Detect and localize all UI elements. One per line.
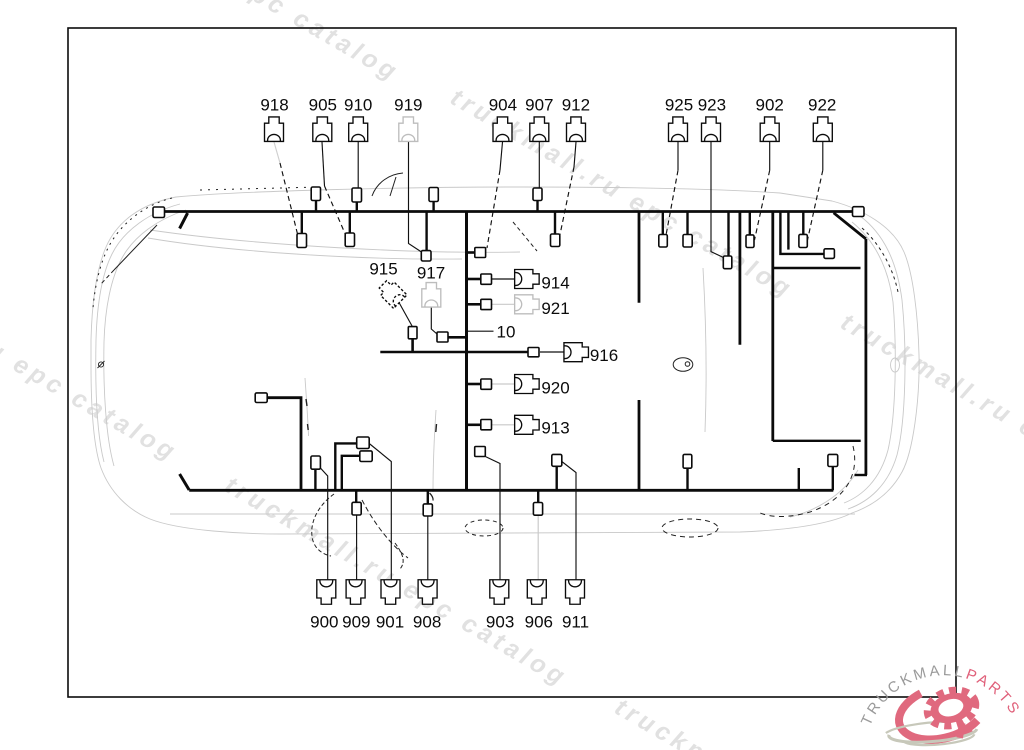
front left dotted edge (93, 198, 172, 308)
svg-text:919: 919 (394, 95, 422, 114)
svg-text:917: 917 (417, 264, 445, 283)
front door seam (305, 378, 309, 436)
stub 687 lower (686, 468, 688, 490)
wire rect-920 gray (492, 383, 515, 385)
svg-text:914: 914 (541, 274, 569, 293)
b-pillar line (433, 410, 436, 492)
left branch wire (267, 398, 301, 491)
stub 900 rect (314, 469, 316, 490)
rect gamma1 (357, 437, 370, 449)
lead 909 down (356, 515, 358, 579)
rect comb 824 (824, 249, 834, 259)
mid horizontal wire (380, 351, 528, 354)
rect 687 lower (683, 454, 692, 468)
logo gray swoosh shadow (885, 719, 978, 749)
A pillar diagonal (114, 225, 157, 270)
bottom-left arc crossing (362, 500, 408, 558)
bottom-left wheel curl (312, 494, 334, 556)
lead 904 (500, 142, 503, 170)
drop B4 (554, 212, 556, 235)
rect 903 feed (475, 447, 486, 457)
right comb drop 663 (662, 212, 664, 235)
rect comb 803 (799, 234, 807, 247)
symbol 919 gray (399, 117, 418, 142)
comb drop 803 (802, 212, 804, 235)
rect R4 920 (481, 379, 492, 389)
symbol 917 gray (422, 283, 441, 308)
symbol 902 (760, 117, 779, 142)
svg-text:truckmall.ru epc catalog: truckmall.ru epc catalog (836, 308, 1024, 529)
symbol 908 (418, 580, 437, 605)
right diagonal from top wire (834, 213, 866, 239)
center trunk (465, 212, 468, 491)
stub A2 (356, 202, 358, 212)
svg-text:10: 10 (497, 323, 516, 342)
svg-text:920: 920 (541, 379, 569, 398)
door seam ticks (306, 399, 437, 432)
svg-text:908: 908 (413, 612, 441, 631)
gamma1 wire (335, 443, 356, 490)
rect A1 (311, 187, 320, 201)
logo gear (923, 685, 984, 746)
symbol 916 side (564, 343, 589, 362)
spare wheel dashed ellipse 1 (465, 520, 503, 536)
lead 919 (409, 142, 422, 252)
symbol 906 (527, 580, 546, 605)
top edge dotted (200, 187, 320, 190)
rect 906 (533, 503, 542, 516)
drop B1 (301, 212, 303, 234)
rear right lower dashed arc (758, 446, 855, 517)
logo arc text (870, 675, 1014, 726)
car body outer (91, 187, 919, 534)
gamma2 wire (342, 456, 360, 491)
rect A2 (352, 188, 362, 202)
svg-text:913: 913 (541, 419, 569, 438)
rect B1 (297, 234, 307, 248)
wire rect-916 (540, 351, 564, 353)
svg-text:921: 921 (541, 299, 569, 318)
small tick below line (430, 493, 434, 501)
drop B2 (349, 212, 351, 234)
rect 900 (311, 456, 321, 469)
left end rect (153, 207, 165, 218)
svg-text:900: 900 (310, 612, 338, 631)
stub R4 920 (467, 383, 481, 386)
symbol 909 (346, 580, 365, 605)
drop 908 (427, 490, 429, 504)
symbol 914 side (515, 270, 540, 289)
svg-text:901: 901 (376, 612, 404, 631)
wire rect-921 gray (492, 303, 515, 305)
svg-text:922: 922 (808, 95, 836, 114)
rect B3 (421, 251, 431, 261)
rear inner curve 1 (848, 216, 905, 509)
right trunk lower (638, 400, 641, 490)
rear pillar line (703, 268, 706, 432)
rear inner curve 2 (844, 222, 895, 503)
stub R1 914 (467, 278, 481, 281)
symbol 904 (493, 117, 512, 142)
rect comb 687 (683, 235, 692, 248)
svg-text:905: 905 (309, 95, 337, 114)
bare stub 799 (798, 468, 800, 490)
rect 911 (552, 454, 562, 466)
rect R2 921 (481, 299, 492, 309)
A pillar diagonal dashes (100, 270, 114, 285)
rect comb 750 (746, 235, 754, 248)
stub A4 (536, 201, 538, 212)
lead 905 (322, 142, 325, 186)
symbol 910 (349, 117, 368, 142)
rect 917 lead (437, 332, 448, 342)
svg-text:918: 918 (260, 95, 288, 114)
symbol 922 (813, 117, 832, 142)
svg-text:906: 906 (525, 612, 553, 631)
rect top right end (853, 207, 865, 217)
symbol 912 (567, 117, 586, 142)
symbol 911 (566, 580, 585, 605)
symbol 918 (265, 117, 284, 142)
rect 833 (828, 454, 838, 466)
door top arc (372, 173, 403, 196)
symbol 903 (490, 580, 509, 605)
windshield diagonal dashed (513, 222, 537, 251)
symbol 913 side (515, 415, 540, 434)
symbol 920 side (515, 375, 540, 394)
lead 917 to rect (431, 307, 437, 334)
right comb drop 687 (686, 212, 688, 235)
right vertical foot (855, 474, 868, 476)
lead 901 down (369, 444, 391, 580)
svg-text:923: 923 (698, 95, 726, 114)
symbol 900 (317, 580, 336, 605)
symbol 915 dashed rotated (376, 278, 407, 309)
lead 902 (769, 142, 771, 171)
wire 10 callout (468, 330, 494, 332)
rect gamma2 (360, 451, 372, 462)
right vertical (865, 239, 868, 475)
lead 912 (574, 142, 576, 167)
rect A4 (533, 188, 542, 201)
lead 910 (357, 142, 359, 188)
right comb long drop 740 (739, 212, 742, 345)
rect 909 (352, 502, 361, 515)
bottom-left hook (395, 543, 403, 569)
svg-text:904: 904 (489, 95, 517, 114)
rect comb 728 (723, 256, 732, 269)
car inner front curve 1 (96, 204, 180, 462)
svg-text:909: 909 (342, 612, 370, 631)
symbol 905 (313, 117, 332, 142)
lead 907 (538, 142, 540, 188)
svg-text:916: 916 (590, 346, 618, 365)
stub R2 921 (467, 303, 481, 306)
stub 904 rect (467, 251, 476, 254)
car inner front curve 2 (104, 210, 186, 466)
stub 911 rect (556, 466, 558, 490)
right comb drop 750 (749, 212, 751, 235)
box top (772, 267, 861, 269)
rear right upper dashed arc (862, 228, 898, 292)
cowl line (150, 230, 520, 252)
symbol 925 (669, 117, 688, 142)
tiny mark far left (98, 361, 105, 368)
comb stub 788 (787, 212, 789, 250)
stub 833 (832, 467, 834, 491)
box left side (771, 212, 774, 442)
svg-text:903: 903 (486, 612, 514, 631)
rear wheel arch (790, 470, 858, 517)
windshield base (148, 238, 462, 259)
lower cut slash (180, 474, 190, 490)
svg-text:912: 912 (562, 95, 590, 114)
symbol 907 (530, 117, 549, 142)
rect 915 lead (408, 327, 417, 339)
trunk lock oval (891, 358, 900, 372)
wire rect-914 (492, 278, 515, 280)
top main wire (164, 210, 855, 213)
rect B2 (345, 233, 354, 247)
spare wheel dashed ellipse 2 (662, 519, 718, 537)
svg-text:902: 902 (756, 95, 784, 114)
wire rect-913 gray (492, 424, 515, 426)
top cut slash (180, 213, 188, 229)
rect B4 (551, 234, 560, 247)
lead 900 down (320, 468, 327, 579)
fuel pump oval (673, 358, 693, 372)
lead 915 to rect (399, 303, 412, 327)
wire 917-rect to trunk (448, 336, 467, 339)
box bottom (773, 440, 861, 442)
bottom inner sill (170, 513, 855, 515)
drop 909 (355, 490, 357, 502)
svg-text:910: 910 (344, 95, 372, 114)
rect R5 913 (481, 420, 492, 430)
svg-text:truckmall.ru epc catalog: truckmall.ru epc catalog (52, 0, 405, 87)
symbol 901 (381, 580, 400, 605)
comb drop 780 with L to rect (780, 212, 824, 254)
svg-text:925: 925 (665, 95, 693, 114)
stub A1 (315, 201, 317, 212)
right comb drop 728 (727, 212, 729, 257)
lead 925 (677, 142, 679, 171)
lead 923 (711, 142, 723, 258)
stub A3 (432, 202, 434, 212)
drop 906 (537, 490, 539, 502)
right trunk upper (638, 212, 641, 303)
lead 918 (274, 142, 280, 163)
svg-text:911: 911 (562, 612, 589, 631)
lead 908 down (427, 516, 429, 579)
rect 904 target (475, 248, 486, 258)
rect R1 914 (481, 274, 492, 284)
stub R5 913 (467, 423, 481, 426)
rect R3 916 (528, 348, 539, 357)
lead 906 down (537, 515, 539, 579)
lead 903 down (485, 457, 500, 580)
svg-text:907: 907 (525, 95, 553, 114)
logo pink swoosh crescent (893, 680, 980, 750)
rect 908 (423, 504, 432, 516)
lead 911 down (562, 462, 576, 580)
rect comb 663 (659, 235, 668, 248)
lead 922 (822, 142, 824, 171)
symbol 921 side gray (515, 295, 540, 314)
rect left branch (255, 393, 267, 403)
drop B3 (425, 212, 427, 251)
lower main wire (189, 489, 833, 492)
svg-text:915: 915 (369, 260, 397, 279)
wire 915-rect down (411, 339, 414, 352)
rect A3 (429, 188, 438, 202)
symbol 923 (702, 117, 721, 142)
